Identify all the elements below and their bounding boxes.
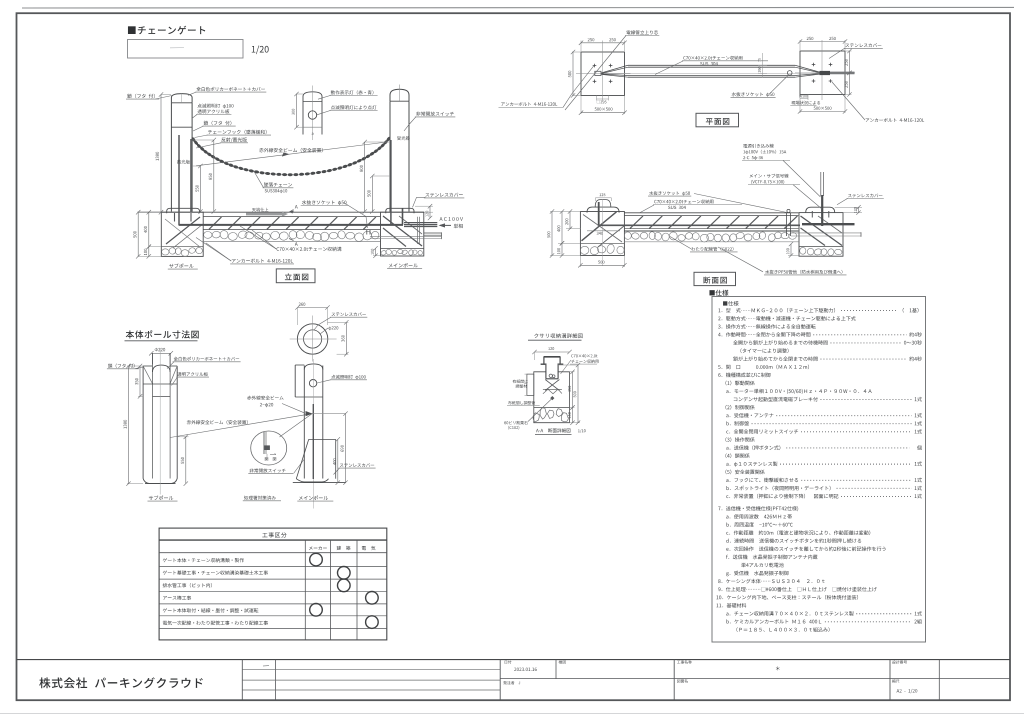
- left foundation block: [161, 212, 203, 256]
- chain storage channel: [203, 216, 380, 218]
- field labels: [505, 660, 512, 663]
- beam unit arrow: [306, 411, 313, 416]
- left adjuster box: [527, 374, 534, 395]
- ground line: [138, 211, 425, 213]
- boxed label 立面図: [276, 269, 315, 283]
- title: [126, 330, 199, 338]
- right square center lines: [821, 46, 823, 101]
- left square bottom small dim: [596, 96, 598, 101]
- subpole outer flange: [142, 366, 144, 479]
- ann anchor bolt: [232, 259, 293, 263]
- left square center fitting: [595, 71, 601, 75]
- ann subpole cap lid: [108, 364, 135, 368]
- channel converge left: [602, 65, 629, 73]
- subpole inner walls: [152, 365, 154, 479]
- verticals: [241, 660, 243, 701]
- right pole mainpole body: [389, 101, 391, 211]
- AC100V label: [440, 217, 463, 221]
- left block: [580, 212, 624, 256]
- left block stones: [579, 245, 589, 255]
- drain pipe through block: [791, 232, 861, 234]
- ann mini pole indicator lamp: [331, 90, 374, 94]
- ann anchor bolt left square: [501, 102, 557, 106]
- center line left block: [602, 199, 604, 266]
- row lines: [159, 566, 387, 568]
- label mainpole: [389, 263, 418, 267]
- channel diagonal braces: [209, 217, 222, 229]
- mini pole top-detail: [302, 102, 304, 135]
- label mainpole: [299, 496, 328, 500]
- heading 仕様: [709, 290, 728, 296]
- section channel: [624, 212, 798, 214]
- diamond marker: [550, 396, 554, 400]
- right block bolts: [811, 211, 813, 218]
- ann power supply: [743, 144, 773, 148]
- foundation depth dims: [138, 211, 162, 213]
- ann drain pipe: [765, 270, 842, 274]
- ann emergency switch right: [416, 112, 454, 116]
- table rows: [163, 558, 244, 562]
- section channel braces: [630, 216, 643, 229]
- ann crossing conduit: [691, 247, 733, 251]
- drain socket circle: [787, 71, 792, 76]
- header row line: [159, 552, 387, 554]
- ann drain socket section: [649, 191, 690, 196]
- dark chain line across channel: [599, 224, 800, 226]
- label subpole: [169, 264, 193, 269]
- left foundation diagonal rebar: [166, 217, 200, 244]
- company name: [39, 677, 202, 688]
- table outer: [159, 528, 387, 640]
- beam long line to main pole: [170, 414, 312, 438]
- ann polycarbonate cover: [196, 87, 264, 91]
- pole small labels: [177, 160, 190, 164]
- ann chain spec: [264, 182, 292, 186]
- right foundation stones: [380, 250, 387, 256]
- right block: [799, 213, 843, 257]
- ann stainless cover section: [848, 194, 882, 198]
- small mark: [263, 665, 269, 668]
- ann drain socket: [302, 200, 347, 205]
- channel converge right: [795, 65, 821, 72]
- right pole dome cap: [390, 89, 409, 101]
- top view 360 dim: [298, 307, 328, 309]
- groove liner box: [545, 365, 547, 379]
- ann beam 2-phi20: [247, 396, 283, 400]
- left pole joint line: [171, 126, 192, 128]
- channel double lines: [628, 64, 795, 66]
- left pole base cover: [167, 208, 200, 213]
- spec box: [712, 297, 926, 643]
- ann 鎖(フタ付) top: [127, 94, 155, 99]
- left square left dim 500: [572, 51, 581, 53]
- chain catenary: [191, 137, 196, 143]
- scan artifact bottom line: [0, 713, 1024, 715]
- right square bolt marks: [812, 64, 816, 66]
- main pole cover trapezoid: [309, 438, 336, 440]
- ann stainless cover top: [332, 312, 366, 316]
- left block diagonals: [582, 212, 617, 241]
- subpole label: [149, 496, 173, 501]
- boxed label 平面図: [696, 113, 739, 127]
- label A-A: [536, 428, 570, 432]
- left block chain riser (dark): [598, 202, 600, 226]
- bedding stones under channel: [203, 231, 212, 238]
- AC arrow: [440, 224, 451, 226]
- scan artifact top line: [22, 6, 1014, 9]
- main pole top view: [297, 324, 327, 354]
- left block outer cover hump: [587, 207, 619, 213]
- 100 dim below right block: [788, 255, 798, 257]
- ann chain hook: [208, 130, 267, 135]
- left small rows: [242, 668, 500, 670]
- cable right edge left pole: [190, 139, 192, 213]
- right dims: [570, 371, 575, 373]
- drain pipes right: [424, 232, 442, 234]
- stone zone: [534, 407, 570, 409]
- mini pole left dim: [296, 93, 303, 95]
- right foundation diagonal rebar: [383, 216, 422, 246]
- main pole center line: [312, 359, 314, 509]
- ann lamp: [197, 104, 233, 109]
- left pole inner line: [181, 94, 183, 103]
- subpole center line: [159, 348, 161, 495]
- right dims 850/500: [365, 141, 390, 143]
- left square center lines: [602, 46, 604, 101]
- right foundation block: [381, 212, 424, 256]
- gray direction arrow: [252, 208, 268, 212]
- ann mini pole lamp: [331, 105, 377, 109]
- right pole center line: [399, 85, 401, 102]
- right block cover hump: [806, 207, 835, 212]
- main pole base bell: [298, 473, 328, 479]
- title: [534, 333, 582, 338]
- ann stainless cover bottom: [340, 463, 374, 467]
- column lines: [304, 540, 306, 640]
- dark chain cable in channel: [179, 224, 403, 226]
- ann drain socket plan: [732, 92, 775, 97]
- conduit leader diagonal: [565, 36, 626, 111]
- right square bottom W100: [799, 95, 801, 101]
- 340 line and label: [587, 230, 620, 232]
- middle divider: [500, 678, 1010, 680]
- pit box: [534, 372, 570, 423]
- compaction X symbol: [545, 380, 559, 391]
- ann channel spec plan: [683, 56, 742, 60]
- left pole dome cap: [171, 94, 192, 103]
- ann reflector: [221, 137, 247, 142]
- conduit cables vertical: [821, 195, 823, 226]
- ann adjuster: [513, 380, 528, 384]
- right pole cable (dark): [390, 140, 392, 225]
- scale 1/20: [252, 46, 269, 55]
- right base square: [800, 51, 845, 95]
- left pole height dim 1380: [161, 94, 171, 96]
- label 処理署: [244, 496, 276, 500]
- right square motor unit (dark): [820, 71, 831, 75]
- section marks A-A: [295, 205, 298, 209]
- 120 dim right cover: [415, 205, 433, 207]
- main pole dome: [304, 364, 323, 370]
- left pole subpole body: [170, 103, 172, 212]
- mini pole lamp circle: [308, 111, 316, 119]
- section bedding stones: [623, 231, 632, 240]
- drive shaft bar: [830, 72, 855, 75]
- main pole joint: [295, 396, 323, 398]
- left square bottom dim 500x500: [580, 96, 582, 115]
- left base square: [581, 52, 625, 96]
- main pole body: [303, 366, 305, 479]
- 125 dim above left block: [594, 198, 596, 201]
- subpole joint lines: [143, 383, 177, 385]
- dark chain bar right: [802, 223, 855, 225]
- ann gravel: [504, 421, 527, 425]
- ann lower left: [508, 401, 535, 405]
- spec title inside: [723, 301, 739, 306]
- vertical drain in right foundation: [417, 217, 419, 244]
- ann stainless cover plan: [845, 43, 881, 47]
- right pole base cover: [386, 208, 414, 213]
- subpole flange diagonals: [143, 366, 153, 384]
- right square top dim: [799, 40, 801, 50]
- top dim: [535, 351, 570, 353]
- chain links inside: [549, 374, 552, 377]
- main pole right dims: [337, 439, 339, 482]
- main pole upper casing: [294, 365, 296, 397]
- left square bolt marks: [593, 65, 597, 67]
- subpole top stub: [152, 353, 154, 364]
- channel hat profile (dark): [544, 356, 561, 358]
- beam label: [259, 148, 323, 153]
- section left dims: [550, 211, 580, 213]
- drain socket fitting: [786, 213, 788, 236]
- ann channel spec: [571, 354, 597, 357]
- subpole base bell: [143, 479, 177, 484]
- subpole dome: [153, 365, 171, 372]
- right block stones: [799, 247, 806, 254]
- boxed label 断面図: [694, 272, 736, 285]
- ann channel spec section: [654, 199, 713, 203]
- ann emergency switch: [249, 468, 285, 472]
- spec text lines: [718, 308, 835, 313]
- drain socket under channel: [366, 230, 368, 235]
- ann infrared beam: [187, 420, 248, 424]
- ann channel spec: [277, 247, 342, 251]
- ann subpole cover: [174, 357, 239, 361]
- chain center line: [605, 72, 818, 74]
- inner dims 550/850 left: [192, 139, 214, 141]
- ann stainless cover right: [425, 193, 462, 197]
- top view right dim 360: [328, 321, 349, 323]
- detail circle leader: [280, 414, 313, 437]
- left square top dim 250+250: [580, 41, 582, 52]
- 100 dim below right foundation: [373, 255, 381, 257]
- ann signal line: [750, 174, 789, 178]
- right block diagonals: [801, 216, 843, 246]
- title sub box: [128, 40, 244, 59]
- mid dim 75/260: [762, 53, 764, 78]
- ann lamp hole: [331, 375, 365, 380]
- detail circle emergency switch: [251, 431, 287, 465]
- ann phi220 top: [329, 326, 339, 330]
- left foundation anchor bolts: [174, 213, 176, 222]
- right square right dim 250/250: [845, 50, 852, 52]
- title row: [159, 539, 387, 541]
- main pole dark cable: [312, 404, 314, 479]
- section 120 dim right: [835, 206, 862, 208]
- top line: [17, 659, 1011, 661]
- main pole lamp hole: [309, 380, 316, 387]
- ann anchor bolt plan: [866, 118, 925, 122]
- ann 鎖(フタ付) mid: [204, 121, 232, 126]
- section bottom dim 500: [579, 256, 581, 268]
- cable riser left pole: [178, 135, 180, 226]
- right square bottom dim: [799, 100, 801, 113]
- ann subpole acryl: [177, 372, 208, 376]
- drawing title チェーンゲート: [128, 26, 205, 35]
- subpole dims: [127, 365, 143, 367]
- subpole phi220 dim: [155, 348, 165, 351]
- left foundation stones: [162, 249, 169, 255]
- header labels: [309, 546, 327, 550]
- power cable lines: [404, 222, 437, 224]
- left block inner cover hump: [595, 200, 611, 208]
- ann conduit: [626, 30, 658, 34]
- infrared beam line: [196, 142, 387, 166]
